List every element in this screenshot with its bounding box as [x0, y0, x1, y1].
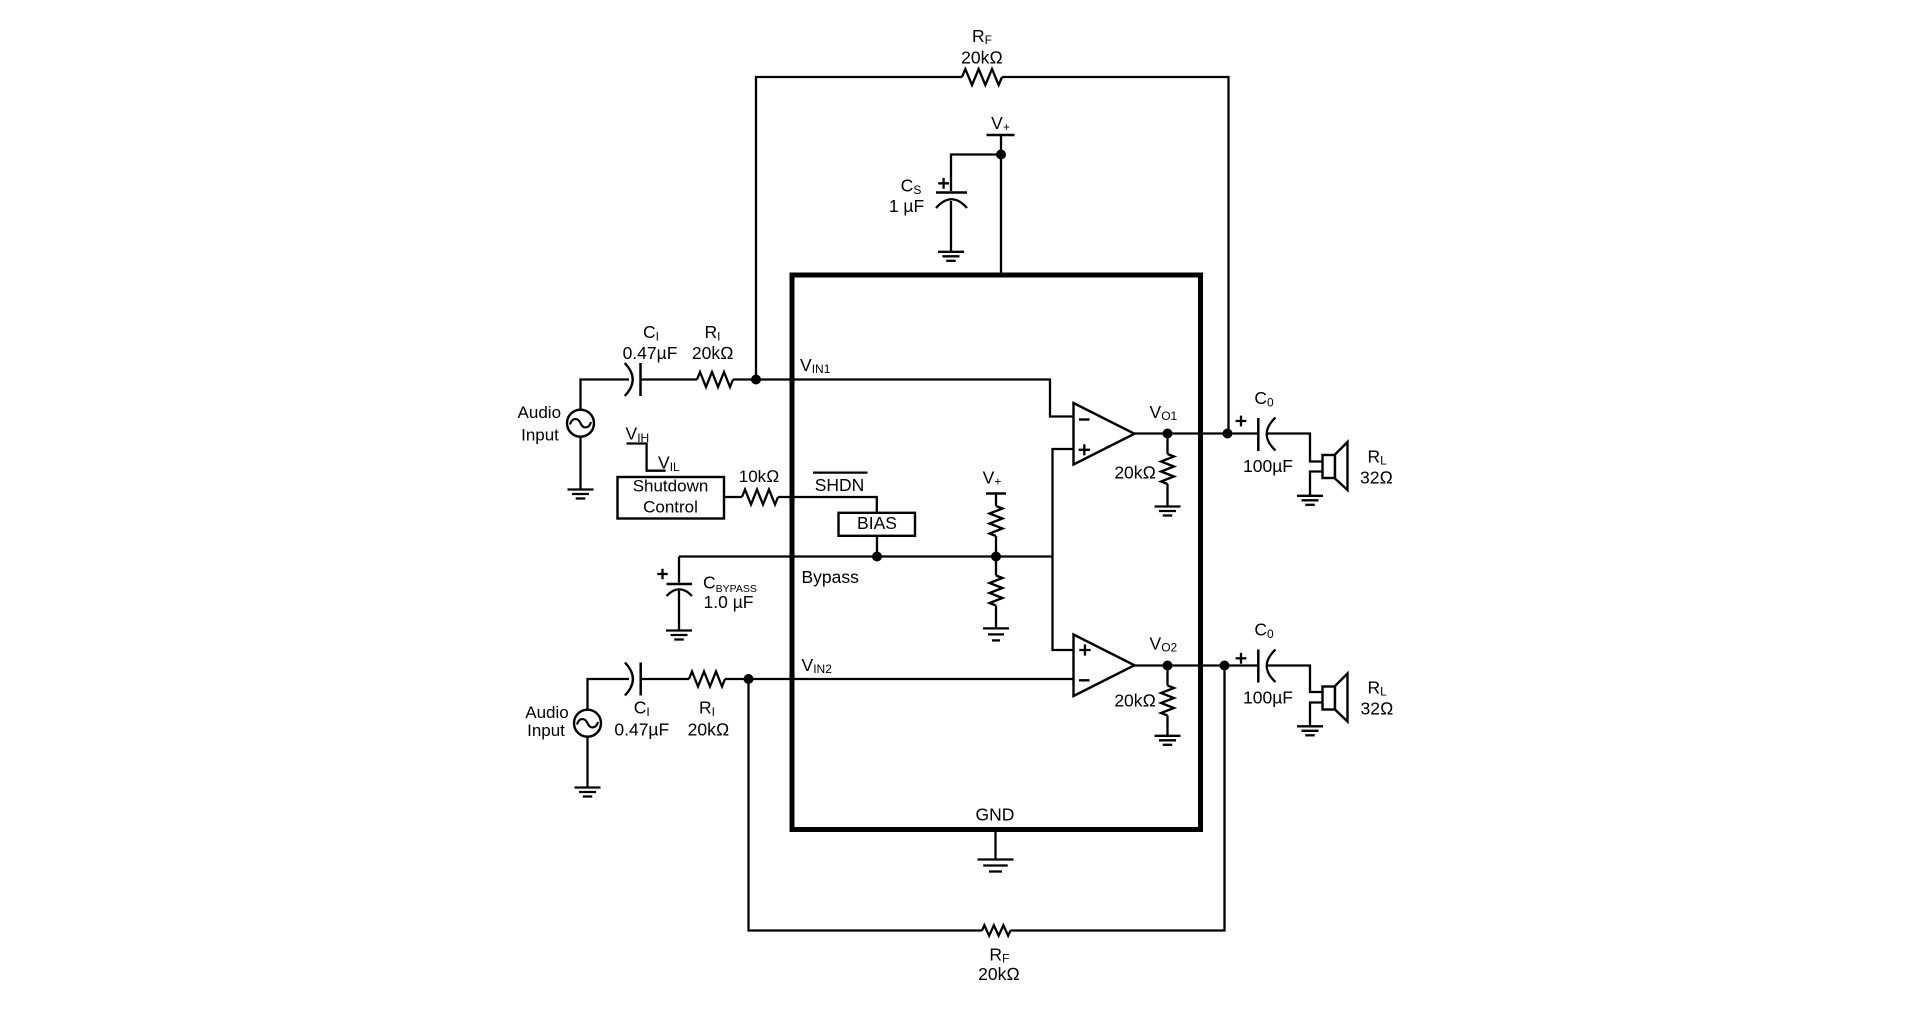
svg-text:SHDN: SHDN — [815, 475, 865, 495]
svg-text:100µF: 100µF — [1243, 456, 1293, 476]
svg-text:Input: Input — [527, 721, 565, 740]
svg-text:20kΩ: 20kΩ — [1114, 691, 1156, 711]
svg-text:1.0 µF: 1.0 µF — [704, 592, 754, 612]
svg-text:0.47µF: 0.47µF — [623, 343, 678, 363]
svg-text:Control: Control — [643, 498, 698, 517]
svg-text:20kΩ: 20kΩ — [978, 964, 1020, 984]
svg-text:20kΩ: 20kΩ — [1114, 462, 1156, 482]
svg-text:20kΩ: 20kΩ — [961, 47, 1003, 67]
svg-text:32Ω: 32Ω — [1361, 699, 1394, 719]
svg-text:GND: GND — [976, 805, 1015, 825]
svg-text:Bypass: Bypass — [802, 567, 860, 587]
svg-text:32Ω: 32Ω — [1360, 468, 1393, 488]
svg-text:BIAS: BIAS — [857, 513, 897, 533]
svg-text:Audio: Audio — [518, 403, 561, 422]
svg-text:100µF: 100µF — [1243, 688, 1293, 708]
svg-text:20kΩ: 20kΩ — [688, 720, 730, 740]
svg-text:10kΩ: 10kΩ — [739, 467, 779, 486]
svg-text:0.47µF: 0.47µF — [614, 720, 669, 740]
svg-text:1 µF: 1 µF — [889, 196, 924, 216]
svg-text:Input: Input — [521, 425, 559, 444]
svg-text:Audio: Audio — [525, 703, 568, 722]
svg-text:Shutdown: Shutdown — [633, 477, 709, 496]
svg-text:20kΩ: 20kΩ — [692, 343, 734, 363]
